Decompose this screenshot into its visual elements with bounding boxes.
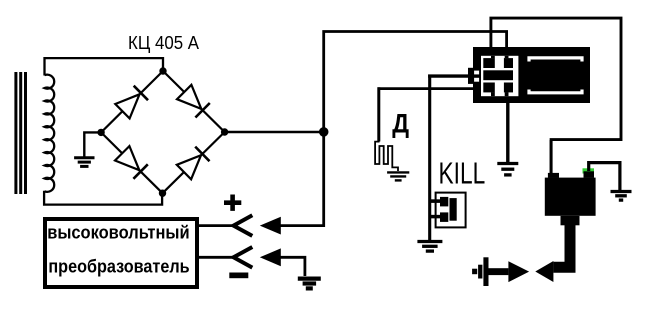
sensor D meander element xyxy=(375,142,398,171)
ground G4 below KILL switch xyxy=(417,240,442,243)
ignition coil left terminal xyxy=(548,173,559,178)
svg-text:Д: Д xyxy=(392,109,409,139)
diode VD3 (left node to bottom node) xyxy=(115,146,139,170)
connector pin contact top-left xyxy=(483,58,495,68)
wire sensor branch vertical xyxy=(377,87,380,141)
ground G1 at bridge left node xyxy=(74,156,94,159)
node bridge left xyxy=(97,129,104,136)
ground G2 below CDI connector xyxy=(497,162,518,165)
wire winding top to bridge top node xyxy=(45,58,164,75)
svg-text:КЦ 405 А: КЦ 405 А xyxy=(128,33,199,53)
ignition coil body xyxy=(545,178,596,216)
wire converter minus output xyxy=(199,256,235,259)
minus sign label xyxy=(229,273,248,279)
ignition coil left terminal wire xyxy=(550,140,553,174)
junction A dot xyxy=(319,127,329,137)
plus terminal chevron xyxy=(234,215,253,236)
svg-text:преобразователь: преобразователь xyxy=(48,257,189,277)
diode VD1 (left node to top node) xyxy=(115,94,139,118)
wire winding bottom to bridge bottom node xyxy=(44,191,162,205)
node bridge bottom xyxy=(159,190,166,197)
spark plug lead bar xyxy=(489,268,509,275)
connector pin contact bottom-left xyxy=(483,83,495,93)
KILL switch pad lower xyxy=(440,212,448,222)
connector pin tab bottom-right xyxy=(505,92,509,96)
wire bridge edge left-top xyxy=(101,71,163,132)
wire bridge left node to ground xyxy=(84,132,101,156)
connector pin tab top-left xyxy=(491,56,495,59)
wire KILL node to connector stub xyxy=(428,74,470,77)
ignition coil HV stem xyxy=(561,216,580,226)
wire junction A up-right to connector pin and down-left to plus arrow xyxy=(280,32,506,226)
plus wire arrow xyxy=(260,217,281,235)
spark plug large bar xyxy=(483,257,488,286)
ignition coil green terminal cap xyxy=(583,168,595,173)
wire bridge edge top-right xyxy=(163,71,225,132)
wire converter plus output xyxy=(199,224,235,227)
diode VD2 (top node to right node) xyxy=(177,85,201,109)
ground G3 right of ignition coil xyxy=(611,190,632,193)
minus wire arrow xyxy=(260,248,281,266)
svg-text:KILL: KILL xyxy=(439,156,486,191)
connector left stub notch lower xyxy=(474,78,479,82)
spark plug tip square xyxy=(472,269,477,275)
ground G5 below minus wire xyxy=(298,277,321,281)
converter box (high-voltage converter) xyxy=(45,219,197,287)
node bridge right xyxy=(221,128,228,135)
CDI unit white inner outline xyxy=(529,58,582,93)
wire coil HT terminal to ground xyxy=(589,163,620,190)
wire bridge edge left-bottom xyxy=(101,132,162,193)
KILL switch body outline xyxy=(436,193,466,228)
minus terminal chevron xyxy=(234,247,253,268)
connector left stub notch upper xyxy=(474,71,479,75)
plus sign label xyxy=(224,195,241,211)
diode VD4 (bottom node to right node) xyxy=(177,155,201,179)
connector pin contact top-right xyxy=(504,58,513,68)
KILL switch stub lower xyxy=(430,215,441,219)
connector pin contact bottom-right xyxy=(504,83,513,93)
spark plug small bar xyxy=(478,265,482,279)
transformer T1 secondary winding xyxy=(45,75,55,192)
wire minus arrow tail to ground xyxy=(280,257,305,276)
wire CDI pin2 to ground xyxy=(506,103,509,162)
transformer T1 core xyxy=(14,72,17,194)
KILL switch contact bar xyxy=(450,198,457,221)
wire bridge right node to junction A xyxy=(225,131,324,133)
ignition coil right terminal xyxy=(584,171,595,178)
connector window xyxy=(481,56,518,96)
spark plug arrow (to HV lead) xyxy=(508,261,529,282)
node bridge top xyxy=(159,67,166,74)
CDI unit connector block body xyxy=(473,47,590,103)
HV lead wire xyxy=(553,224,570,267)
wire sensor node to CDI box xyxy=(378,87,476,90)
connector pin tab bottom-left xyxy=(491,92,495,96)
connector pin contact middle bar xyxy=(483,70,513,80)
connector pin tab top-right xyxy=(505,56,509,59)
KILL switch stub upper xyxy=(430,199,441,203)
wire KILL switch vertical xyxy=(428,75,431,241)
wire CDI pin1 to coil left terminal (top route) xyxy=(491,18,621,173)
HV lead arrow (to spark plug) xyxy=(535,261,553,282)
svg-text:высоковольтный: высоковольтный xyxy=(47,223,189,243)
wire bridge edge bottom-right xyxy=(163,132,225,193)
connector left stub xyxy=(468,68,474,84)
KILL switch pad upper xyxy=(440,197,448,207)
ground G6 below sensor xyxy=(387,171,409,173)
